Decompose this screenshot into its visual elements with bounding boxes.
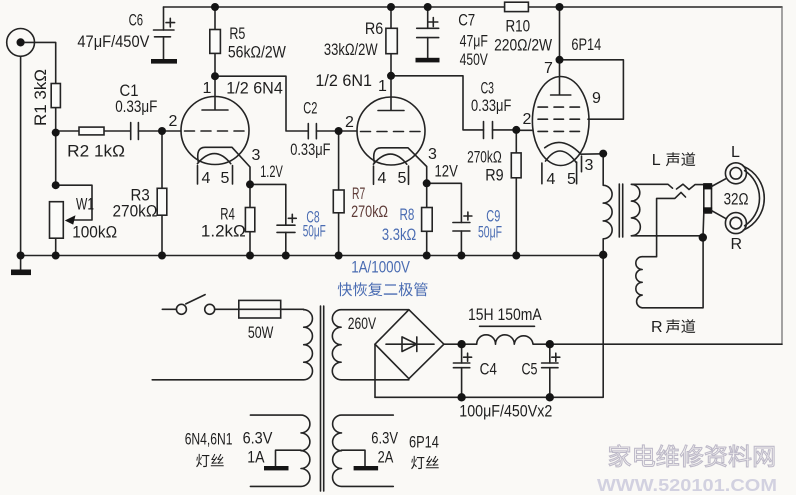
svg-text:R4: R4 — [220, 206, 235, 224]
svg-text:6.3V: 6.3V — [243, 430, 273, 448]
svg-text:C2: C2 — [303, 100, 317, 118]
svg-text:1A: 1A — [247, 449, 264, 467]
svg-text:6.3V: 6.3V — [371, 430, 398, 448]
svg-text:4: 4 — [202, 170, 211, 187]
svg-text:2: 2 — [345, 114, 354, 131]
svg-text:R: R — [731, 236, 743, 253]
svg-text:3: 3 — [428, 146, 437, 163]
svg-text:6N4,6N1: 6N4,6N1 — [185, 431, 233, 449]
svg-text:5: 5 — [398, 170, 407, 187]
svg-text:260V: 260V — [348, 314, 377, 333]
svg-text:6P14: 6P14 — [571, 36, 601, 54]
svg-text:270kΩ: 270kΩ — [467, 149, 502, 167]
svg-text:4: 4 — [547, 171, 556, 188]
svg-text:450V: 450V — [460, 51, 488, 69]
svg-text:1: 1 — [203, 80, 212, 97]
svg-text:R9: R9 — [485, 167, 503, 185]
svg-text:12V: 12V — [435, 163, 458, 181]
svg-text:32Ω: 32Ω — [724, 191, 749, 209]
svg-text:270kΩ: 270kΩ — [113, 203, 158, 221]
svg-text:50μF: 50μF — [303, 223, 326, 241]
svg-text:C6: C6 — [129, 12, 144, 30]
svg-text:100kΩ: 100kΩ — [72, 224, 117, 242]
svg-text:100μF/450Vx2: 100μF/450Vx2 — [459, 402, 552, 421]
svg-text:L: L — [731, 144, 740, 161]
svg-text:1/2 6N1: 1/2 6N1 — [315, 72, 372, 90]
svg-text:C5: C5 — [522, 360, 538, 379]
svg-text:R10: R10 — [506, 18, 531, 36]
svg-text:R7: R7 — [352, 185, 365, 203]
svg-text:1: 1 — [378, 78, 387, 95]
svg-text:3.3kΩ: 3.3kΩ — [382, 226, 416, 244]
svg-text:L: L — [652, 152, 661, 169]
svg-text:0.33μF: 0.33μF — [471, 97, 511, 115]
svg-text:1/2 6N4: 1/2 6N4 — [226, 80, 282, 98]
svg-text:47μF/450V: 47μF/450V — [77, 33, 149, 51]
svg-text:50W: 50W — [248, 323, 274, 342]
svg-text:C7: C7 — [458, 12, 475, 30]
svg-text:C3: C3 — [481, 80, 494, 98]
svg-text:2A: 2A — [378, 449, 394, 467]
svg-text:W1: W1 — [76, 196, 94, 214]
svg-text:2: 2 — [523, 111, 532, 128]
svg-text:C4: C4 — [480, 360, 497, 379]
svg-text:2: 2 — [169, 113, 178, 130]
svg-text:R5: R5 — [229, 25, 245, 43]
svg-text:R1 3kΩ: R1 3kΩ — [32, 69, 50, 126]
svg-text:6P14: 6P14 — [409, 434, 439, 452]
svg-text:0.33μF: 0.33μF — [290, 141, 330, 159]
svg-text:15H 150mA: 15H 150mA — [468, 305, 542, 324]
svg-text:270kΩ: 270kΩ — [351, 203, 388, 221]
svg-text:56kΩ/2W: 56kΩ/2W — [228, 44, 286, 62]
svg-text:1.2V: 1.2V — [260, 163, 283, 181]
svg-text:50μF: 50μF — [478, 224, 502, 242]
svg-text:7: 7 — [544, 60, 553, 77]
svg-text:9: 9 — [592, 90, 601, 107]
svg-text:1A/1000V: 1A/1000V — [351, 259, 410, 277]
svg-text:5: 5 — [567, 171, 576, 188]
svg-text:5: 5 — [221, 170, 230, 187]
svg-text:R: R — [651, 319, 663, 336]
svg-text:3: 3 — [585, 157, 594, 174]
svg-text:4: 4 — [378, 170, 387, 187]
svg-text:33kΩ/2W: 33kΩ/2W — [324, 41, 378, 59]
svg-text:220Ω/2W: 220Ω/2W — [494, 37, 552, 55]
svg-text:3: 3 — [252, 147, 261, 164]
svg-text:1.2kΩ: 1.2kΩ — [201, 223, 246, 241]
svg-text:R6: R6 — [365, 20, 383, 38]
svg-text:47μF: 47μF — [460, 33, 488, 51]
svg-text:0.33μF: 0.33μF — [115, 98, 157, 116]
svg-text:R2 1kΩ: R2 1kΩ — [67, 143, 125, 161]
svg-text:R8: R8 — [400, 206, 415, 224]
svg-text:WWW.520101.COM: WWW.520101.COM — [597, 475, 777, 495]
